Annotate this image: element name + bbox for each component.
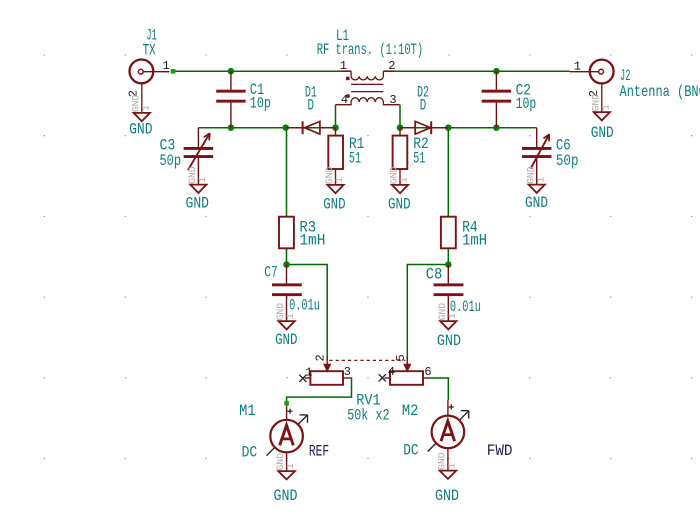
junction C1 bottom <box>228 124 235 131</box>
junction R1 top <box>332 124 339 131</box>
potentiometer RV1 element A <box>310 371 343 385</box>
ground at C7 <box>279 321 295 329</box>
junction C8 top <box>445 261 452 268</box>
wire R4 to C8 junction <box>447 248 449 264</box>
wire top row L1 pin2 to J2 <box>395 70 570 72</box>
ground at C8 <box>440 321 456 329</box>
inductor R3 1mH <box>279 217 294 249</box>
wire C7 junction to RV1 wiper 2 <box>287 265 328 360</box>
resistor R1 <box>335 128 337 136</box>
wire C8 junction to RV1 wiper 5 <box>407 265 448 360</box>
svg-text:C8: C8 <box>426 265 443 283</box>
wire RV1 pin3 to M1 plus <box>287 378 352 403</box>
svg-text:1: 1 <box>334 177 346 183</box>
junction C7 top <box>283 261 290 268</box>
svg-text:DC: DC <box>403 442 418 460</box>
svg-text:1: 1 <box>340 59 347 73</box>
svg-text:1: 1 <box>197 177 209 183</box>
svg-text:C7: C7 <box>264 263 278 281</box>
L1 polarity dot pin4 <box>346 94 350 98</box>
inductor R4 1mH <box>441 217 456 249</box>
svg-text:10p: 10p <box>516 95 537 113</box>
svg-text:GND: GND <box>437 332 461 350</box>
ground at R2 <box>392 185 408 193</box>
capacitor C2 <box>495 71 497 89</box>
connector J2 (BNC) <box>590 60 614 84</box>
capacitor C8 <box>447 265 449 284</box>
svg-text:REF: REF <box>309 442 329 460</box>
ground at M1 <box>278 471 295 479</box>
wire bottom row L1 pin3 node to C6 <box>400 127 537 129</box>
svg-text:1: 1 <box>447 463 459 469</box>
svg-text:1: 1 <box>163 59 170 73</box>
svg-text:51: 51 <box>349 149 361 167</box>
svg-text:10p: 10p <box>250 94 271 112</box>
junction R2 top <box>397 124 404 131</box>
svg-text:GND: GND <box>435 487 459 505</box>
svg-text:GND: GND <box>388 196 411 214</box>
svg-text:RF trans. (1:10T): RF trans. (1:10T) <box>317 41 424 59</box>
junction C1 top <box>228 68 235 75</box>
grid dots <box>44 54 45 55</box>
meter M1 (ammeter) <box>286 406 288 420</box>
svg-text:GND: GND <box>323 196 345 214</box>
svg-text:6: 6 <box>424 365 431 379</box>
ground at J1 <box>134 113 150 121</box>
svg-text:5: 5 <box>394 354 408 361</box>
junction C2 top <box>493 68 500 75</box>
svg-text:1: 1 <box>399 177 411 183</box>
ground at C3 <box>190 185 206 193</box>
wire bottom row C3 to L1 pin4 node <box>198 127 335 129</box>
svg-text:1: 1 <box>447 313 459 319</box>
svg-text:GND: GND <box>129 121 153 139</box>
svg-text:2: 2 <box>313 354 327 361</box>
meter M2 (ammeter) <box>447 400 449 416</box>
svg-text:1mH: 1mH <box>462 231 487 249</box>
transformer L1 <box>351 71 383 80</box>
svg-text:1: 1 <box>305 366 312 380</box>
svg-text:DC: DC <box>242 444 258 462</box>
svg-text:GND: GND <box>274 487 298 505</box>
ground at C6 <box>529 185 545 193</box>
svg-text:50p: 50p <box>160 152 182 170</box>
resistor R2 <box>399 128 401 136</box>
RV1 gang dashed link <box>329 359 405 361</box>
variable capacitor C3 <box>197 128 199 147</box>
wire RV1 pin6 to M2 plus <box>430 378 449 400</box>
svg-text:50k x2: 50k x2 <box>347 406 389 424</box>
L1 pin2 stub <box>383 70 395 72</box>
junction R4 tap <box>445 124 452 131</box>
L1 polarity dot pin1 <box>346 77 350 81</box>
capacitor C7 <box>286 265 288 284</box>
svg-text:GND: GND <box>186 195 210 213</box>
no-connect X at RV1 pin4 <box>379 374 386 381</box>
svg-text:Antenna (BNC): Antenna (BNC) <box>620 83 700 101</box>
svg-text:TX: TX <box>143 41 156 59</box>
M2 bottom lead <box>447 448 449 471</box>
svg-text:50p: 50p <box>556 152 579 170</box>
ground at M2 <box>440 471 457 479</box>
svg-text:GND: GND <box>275 331 297 349</box>
svg-text:1: 1 <box>285 313 297 319</box>
svg-text:1: 1 <box>535 177 547 183</box>
junction C2 bottom <box>493 124 500 131</box>
svg-text:1: 1 <box>285 463 297 469</box>
svg-text:1mH: 1mH <box>299 231 325 249</box>
M1 bottom lead <box>286 452 288 471</box>
svg-text:1: 1 <box>574 60 581 74</box>
wire node B to R4 <box>447 128 449 217</box>
wire-end square at M1 plus <box>284 401 289 406</box>
svg-text:4: 4 <box>341 93 348 107</box>
wire-end square at J1 pin1 <box>171 69 176 74</box>
junction node A (R3 tap) <box>282 124 289 131</box>
diode D1 <box>286 127 303 129</box>
svg-text:D: D <box>420 97 427 115</box>
svg-text:3: 3 <box>389 93 396 107</box>
svg-text:D: D <box>308 97 315 115</box>
ground at R1 <box>327 185 343 193</box>
svg-text:3: 3 <box>344 365 351 379</box>
svg-text:1: 1 <box>600 104 612 110</box>
svg-text:M2: M2 <box>402 402 419 420</box>
L1 pin1 stub <box>340 70 351 72</box>
capacitor C1 <box>230 71 232 89</box>
svg-text:GND: GND <box>525 194 548 212</box>
svg-text:GND: GND <box>591 124 614 142</box>
svg-text:FWD: FWD <box>487 442 513 460</box>
wire top row J1 to L1 pin1 <box>173 70 340 72</box>
svg-text:2: 2 <box>388 59 395 73</box>
svg-text:4: 4 <box>388 365 395 379</box>
wire L1 pin4 down <box>335 105 337 128</box>
potentiometer RV1 element B <box>390 371 423 385</box>
svg-text:1: 1 <box>140 105 152 111</box>
wire L1 pin3 down <box>399 105 401 128</box>
variable capacitor C6 <box>536 128 538 147</box>
diode D2 <box>400 127 415 129</box>
ground at J2 <box>594 112 610 120</box>
wire R3 to C7 junction <box>286 248 288 264</box>
wire node A to R3 <box>286 128 288 217</box>
svg-text:M1: M1 <box>239 402 256 420</box>
svg-text:0.01u: 0.01u <box>289 297 320 315</box>
connector J1 (BNC) <box>130 60 154 84</box>
no-connect X at RV1 pin1 <box>299 375 306 382</box>
svg-text:51: 51 <box>413 149 425 167</box>
